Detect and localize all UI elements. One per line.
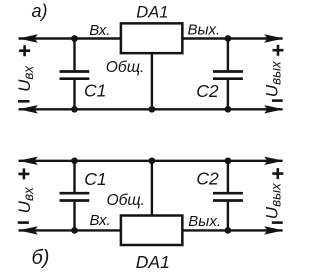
arrowhead: circuit a top rail right (output +) xyxy=(264,34,284,42)
junction node: C2 bottom (circuit a) xyxy=(225,106,232,113)
polarity - (circuit b output) xyxy=(272,221,283,224)
junction node: C2 bottom (circuit b) xyxy=(225,227,232,234)
arrowhead: circuit b top rail right (output +) xyxy=(264,157,284,165)
polarity + (circuit a output) xyxy=(273,45,284,56)
wire: circuit b DA1 Общ pin to top rail xyxy=(151,161,153,217)
capacitor C1 (circuit b) plates xyxy=(60,192,90,195)
arrowhead: circuit b bottom rail left (input -) xyxy=(18,226,38,234)
svg-text:Вх.: Вх. xyxy=(89,22,110,39)
capacitor C2 (circuit a) bottom lead xyxy=(227,80,229,109)
svg-text:C1: C1 xyxy=(84,169,106,189)
junction node: C1 bottom (circuit b) xyxy=(71,227,78,234)
capacitor C2 (circuit b) top lead xyxy=(227,161,229,192)
svg-text:C2: C2 xyxy=(196,169,219,189)
polarity + (circuit b input) xyxy=(18,168,29,179)
svg-text:а): а) xyxy=(32,1,48,21)
capacitor C1 (circuit a) bottom lead xyxy=(73,80,75,109)
arrowhead: circuit a bottom rail left (input -) xyxy=(18,105,38,113)
wire: circuit a top rail right segment (DA1 Вых pin to output) xyxy=(183,37,283,39)
polarity - (circuit a input) xyxy=(18,100,30,103)
wire: circuit b top rail (common) xyxy=(19,160,283,162)
polarity - (circuit b input) xyxy=(18,221,29,224)
svg-text:DA1: DA1 xyxy=(136,4,168,22)
wire: circuit a bottom rail (common) xyxy=(19,108,283,110)
polarity - (circuit a output) xyxy=(272,99,283,102)
svg-text:Вых.: Вых. xyxy=(188,21,221,38)
wire: circuit b bottom rail right segment (DA1 Вых pin to output) xyxy=(183,229,283,231)
capacitor C1 (circuit a) plates xyxy=(60,70,90,73)
arrowhead: circuit a bottom rail right (output -) xyxy=(264,105,284,113)
capacitor C1 (circuit a) top lead xyxy=(73,39,75,71)
regulator IC box DA1 (circuit b) xyxy=(121,216,182,246)
junction node: C1 top (circuit a) xyxy=(71,35,78,42)
capacitor C1 (circuit b) bottom lead xyxy=(73,202,75,231)
junction node: C2 top (circuit b) xyxy=(225,157,232,164)
svg-text:Вх.: Вх. xyxy=(90,212,111,229)
svg-text:Общ.: Общ. xyxy=(106,59,145,76)
wire: circuit a top rail left segment (input to DA1 Вх pin) xyxy=(19,37,121,39)
polarity + (circuit b output) xyxy=(272,168,283,179)
junction node: C2 top (circuit a) xyxy=(225,35,232,42)
svg-text:Вых.: Вых. xyxy=(188,213,221,230)
capacitor C2 (circuit a) top lead xyxy=(227,39,229,71)
polarity + (circuit a input) xyxy=(19,45,30,56)
svg-text:Общ.: Общ. xyxy=(107,192,146,209)
junction node: C1 top (circuit b) xyxy=(71,157,78,164)
junction node: Общ pin at bottom rail (circuit a) xyxy=(149,106,156,113)
svg-text:C2: C2 xyxy=(196,81,219,101)
capacitor C2 (circuit a) plates xyxy=(213,70,243,73)
svg-text:DA1: DA1 xyxy=(136,252,170,272)
svg-text:C1: C1 xyxy=(84,81,106,101)
regulator IC box DA1 (circuit a) xyxy=(121,23,182,53)
arrowhead: circuit a top rail left (input +) xyxy=(18,34,38,42)
junction node: Общ pin at top rail (circuit b) xyxy=(149,157,156,164)
capacitor C2 (circuit b) bottom lead xyxy=(227,202,229,231)
arrowhead: circuit b top rail left (input +) xyxy=(18,157,38,165)
wire: circuit a DA1 Общ pin to bottom rail xyxy=(151,53,153,109)
arrowhead: circuit b bottom rail right (output -) xyxy=(264,226,284,234)
junction node: C1 bottom (circuit a) xyxy=(71,106,78,113)
wire: circuit b bottom rail left segment (input to DA1 Вх pin) xyxy=(19,229,121,231)
capacitor C1 (circuit b) top lead xyxy=(73,161,75,192)
capacitor C2 (circuit b) plates xyxy=(213,192,243,195)
svg-text:б): б) xyxy=(32,247,50,269)
